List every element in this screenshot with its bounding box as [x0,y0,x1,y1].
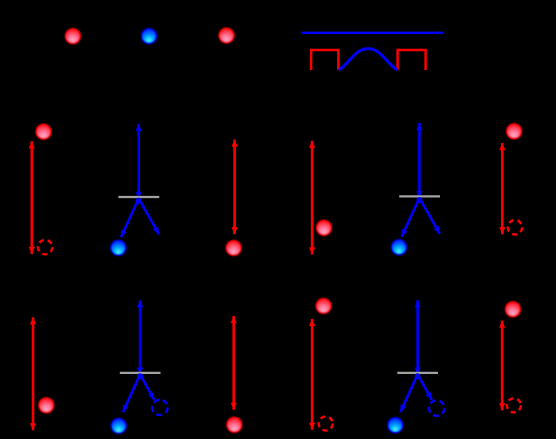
bottom row: red dashed hole circle col4 [319,417,333,431]
bottom row: blue fork col5 vertical arrow [416,300,419,374]
mid row: gray level line col2 [118,196,159,198]
mid row: red dashed hole circle col6 bottom [508,220,522,234]
bottom row: blue ball col5 [388,418,403,433]
red barrier left [311,50,338,70]
mid row: blue ball col2 [111,241,126,256]
mid row: blue fork col5 vertical arrow [418,123,421,198]
mid row: red transition arrow col3 [233,140,236,235]
bottom row: blue fork col5 right branch arrow [418,374,432,399]
mid row: blue fork col5 junction node [416,197,422,203]
mid row: red transition arrow col6 [501,143,504,234]
bottom row: blue fork col5 left branch arrow [400,374,417,412]
mid row: red ball col3 bottom [226,241,241,256]
mid row: blue fork col2 junction node [136,198,142,204]
mid row: blue ball col5 [392,240,407,255]
bottom row: blue fork col2 junction node [137,373,143,379]
bottom row: red dashed hole circle col6 [507,398,521,412]
bottom row: gray level line col2 [120,372,161,374]
bottom row: blue ball col2 [111,419,126,434]
bottom row: blue fork col2 right branch arrow [140,374,154,399]
mid row: red transition arrow col1 [30,141,33,254]
mid row: gray level line col5 [399,195,440,197]
bottom row: red ball col3 bottom [227,418,242,433]
red ball top-left [66,29,81,44]
bottom row: blue dashed hole circle col2 [152,400,167,415]
bottom row: red transition arrow col1 [32,317,35,430]
mid row: blue fork col2 vertical arrow [137,124,140,199]
mid row: blue fork col5 right branch arrow [419,198,439,234]
blue wave hump [339,49,398,70]
bottom row: red transition arrow col6 [501,321,504,411]
blue energy line top-right [302,32,444,34]
mid row: blue fork col5 left branch arrow [402,198,420,237]
mid row: red dashed hole circle col1 bottom [38,240,52,254]
blue ball top-middle [142,29,157,44]
bottom row: red ball col4 top [316,299,331,314]
bottom row: red transition arrow col4 [311,319,314,430]
bottom row: red ball col1 middle [39,398,54,413]
red ball top-right [219,28,234,43]
bottom row: red ball col6 top [506,302,521,317]
mid row: red ball col1 top [36,124,51,139]
bottom row: blue fork col5 junction node [415,373,421,379]
mid row: red transition arrow col4 [311,141,314,255]
mid row: blue fork col2 right branch arrow [139,199,159,235]
bottom row: blue fork col2 vertical arrow [139,300,142,374]
mid row: blue fork col2 left branch arrow [121,199,139,238]
mid row: red ball col6 top [507,124,522,139]
mid row: red ball col4 middle [317,221,332,236]
bottom row: red transition arrow col3 [232,316,235,410]
red barrier right [398,50,426,70]
bottom row: gray level line col5 [397,372,438,374]
bottom row: blue dashed hole circle col5 [429,400,444,415]
bottom row: blue fork col2 left branch arrow [123,374,140,412]
